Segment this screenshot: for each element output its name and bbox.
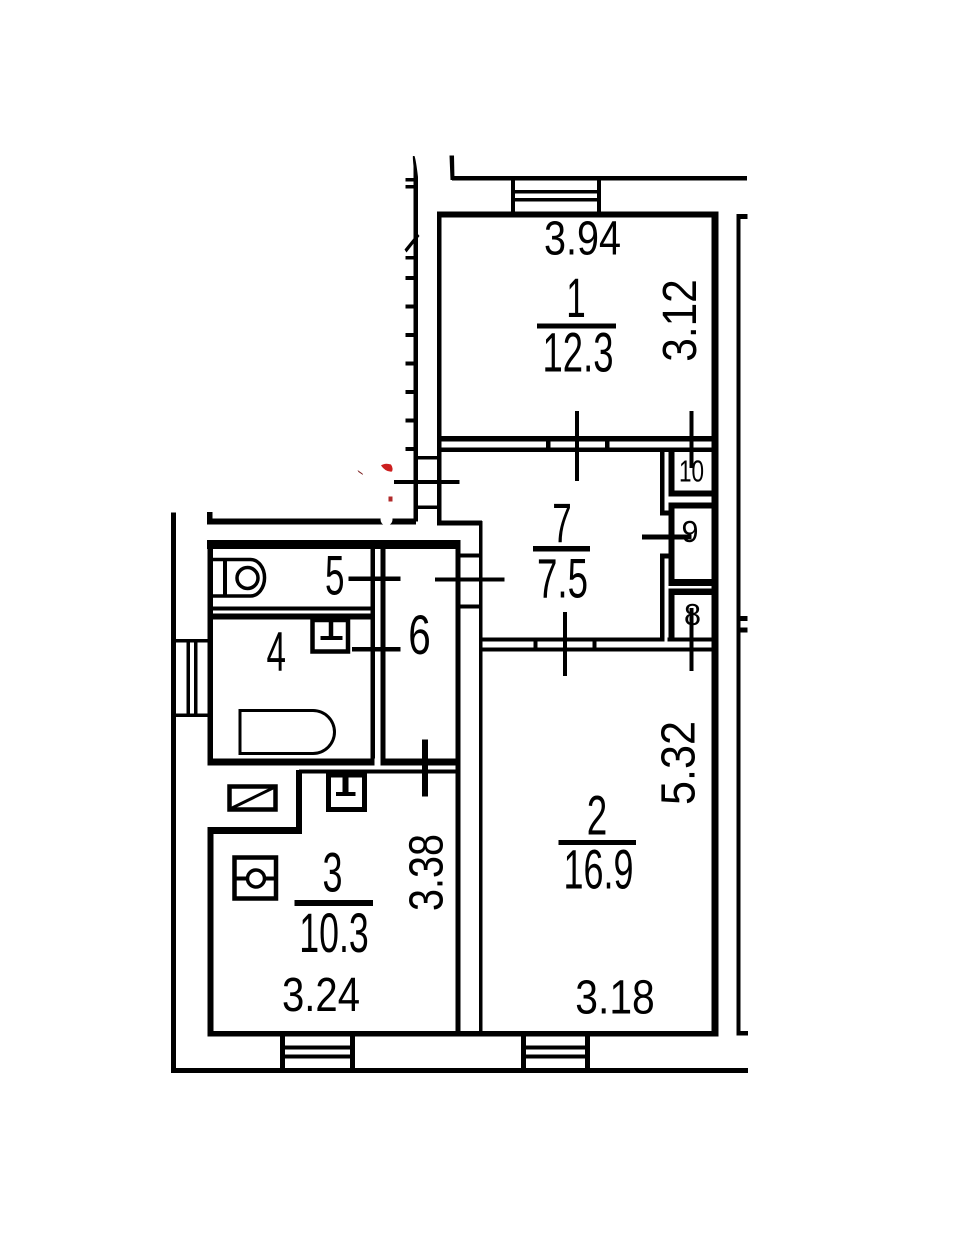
window room2: right jamb — [585, 1032, 590, 1073]
wire kitchen jog vertical — [296, 770, 302, 834]
wire room1 bottom thick wall — [437, 436, 719, 442]
white notch artifact on corridor wall — [381, 514, 393, 526]
niche bottom line — [171, 714, 210, 718]
stair tick 8 — [406, 390, 417, 394]
wire bath block top wall — [207, 540, 461, 549]
svg-text:9: 9 — [682, 514, 699, 549]
right boundary tick b — [737, 628, 748, 633]
wire wall 5/4-6 right line — [381, 549, 386, 759]
door jamb tick 7-2 right — [593, 638, 597, 652]
window room2: left jamb — [521, 1032, 526, 1073]
red artifact crescent — [381, 464, 393, 472]
right boundary top stub — [737, 214, 748, 219]
door tick room4-corridor — [352, 647, 401, 652]
window kitchen: pane line 1 — [280, 1046, 355, 1050]
stair tick 5 — [406, 305, 417, 309]
fraction bar room1 — [537, 324, 616, 329]
svg-text:12.3: 12.3 — [543, 321, 614, 384]
toilet room5 — [211, 558, 265, 598]
wire kitchen/room2 bottom wall — [208, 1031, 719, 1037]
wire top-left corner stub — [450, 156, 455, 181]
wire room7/closet10 top thin line — [442, 448, 719, 453]
door tick room1-room7 — [575, 411, 579, 481]
door tick room7-room2 — [563, 612, 567, 676]
wire room1 top wall — [437, 212, 719, 218]
wire closet8 left wall — [669, 589, 675, 642]
svg-text:7.5: 7.5 — [537, 547, 588, 610]
window kitchen: right jamb — [350, 1032, 355, 1073]
jamb connector closet9 bottom — [660, 554, 674, 559]
niche inner line a — [187, 643, 191, 714]
sink room4 — [313, 620, 349, 652]
window kitchen: left jamb — [280, 1032, 285, 1073]
stair diagonal tread — [405, 234, 420, 253]
wire wall 5/4-6 left line — [371, 549, 376, 759]
wire room2 left wall — [479, 521, 483, 1035]
window room1: pane line 2 — [511, 198, 601, 202]
jamb connector 6-7 top — [460, 554, 480, 558]
wire closet8 bottom upper thin line — [668, 638, 712, 642]
wire room5 bottom thin line — [208, 607, 371, 611]
stair tick 7 — [406, 362, 417, 366]
svg-text:3: 3 — [323, 841, 343, 904]
wire stair wall left line (hooked top) — [413, 156, 418, 522]
wire closet10 left wall — [669, 449, 675, 496]
fraction bar room3 — [295, 900, 374, 906]
window kitchen: pane line 2 — [280, 1055, 355, 1059]
kitchen sink square — [329, 775, 365, 810]
fraction bar room2 — [559, 840, 637, 845]
svg-text:5: 5 — [325, 544, 345, 607]
door tick closet10 — [690, 411, 694, 468]
svg-text:3.12: 3.12 — [654, 279, 707, 362]
wire room7 right wall upper segment — [660, 450, 665, 514]
wire right thick wall — [712, 213, 719, 1036]
wire bottom outer wall — [171, 1068, 748, 1073]
wire room5 bottom thick line — [208, 614, 371, 620]
door tick corridor-room7 — [435, 578, 505, 582]
stair tick 10 — [406, 447, 417, 451]
stair tick 6 — [406, 333, 417, 337]
svg-text:10: 10 — [679, 454, 704, 489]
stair tick 3 — [406, 256, 417, 260]
wire room7 bottom upper thin line — [479, 638, 660, 642]
wire corridor top wall — [207, 519, 416, 525]
wire kitchen left wall — [208, 827, 214, 1036]
svg-text:3.38: 3.38 — [401, 834, 454, 911]
svg-text:3.94: 3.94 — [544, 213, 621, 266]
svg-text:3.18: 3.18 — [575, 972, 655, 1025]
wire lower thin line corridor-kitchen — [299, 770, 460, 774]
right boundary bottom stub — [737, 1031, 749, 1036]
wire right thin boundary line — [737, 214, 741, 1035]
window room2: pane line 1 — [521, 1046, 590, 1050]
right boundary tick a — [737, 616, 748, 621]
stair tick 1 — [406, 178, 417, 182]
wire room7 right wall lower segment — [660, 554, 665, 642]
window room1: pane line 1 — [511, 190, 601, 194]
wire closet10 bottom line — [669, 491, 712, 497]
wire kitchen top-left wall — [208, 827, 303, 834]
fraction bar room7 — [533, 546, 590, 552]
door tick room5-corridor — [349, 577, 401, 582]
stair cross tick upper — [414, 456, 441, 460]
stair cross tick lower — [414, 506, 441, 510]
window room1: left jamb — [511, 177, 515, 214]
wire stair wall right line / room1 left wall — [437, 212, 442, 522]
svg-text:5.32: 5.32 — [653, 721, 706, 805]
bathtub room4 — [239, 709, 337, 755]
stove kitchen — [230, 787, 276, 810]
wire room4 bottom thick wall — [208, 759, 375, 766]
wire closet9 left wall — [669, 503, 675, 586]
svg-text:7: 7 — [552, 491, 572, 554]
door tick entrance — [394, 480, 460, 484]
jamb connector closet9 top — [660, 511, 674, 516]
wire corridor bottom thick wall — [381, 759, 456, 766]
door tick closet8 — [690, 608, 694, 671]
door tick closet9 — [642, 535, 692, 540]
wire closet9 bottom line — [669, 579, 712, 586]
svg-text:16.9: 16.9 — [564, 838, 634, 901]
wire closet8 top line — [669, 589, 712, 596]
wire room7/room2 lower thin line — [479, 648, 712, 652]
niche top line — [171, 639, 210, 643]
svg-text:3.24: 3.24 — [282, 969, 360, 1022]
wire room7 left jog wall — [437, 521, 482, 526]
red artifact dash — [358, 470, 364, 475]
fridge kitchen — [233, 858, 279, 899]
wire closet9 top line — [669, 503, 712, 509]
wire bathroom left wall — [208, 543, 214, 766]
svg-text:4: 4 — [267, 620, 287, 683]
stair tick 2 — [406, 185, 417, 189]
stair tick 4 — [406, 276, 417, 280]
stair tick 9 — [406, 419, 417, 423]
wire top outer wall — [452, 176, 747, 181]
svg-text:8: 8 — [684, 597, 701, 632]
door jamb tick 1-7 left — [546, 442, 551, 453]
window room2: pane line 2 — [521, 1055, 590, 1059]
window room1: right jamb — [597, 177, 601, 214]
jamb connector 6-7 bottom — [460, 605, 480, 609]
door jamb tick 1-7 right — [605, 442, 610, 453]
svg-text:10.3: 10.3 — [299, 901, 369, 964]
wire outer left wall — [171, 513, 176, 1073]
niche inner line b — [194, 643, 198, 714]
door tick corridor-kitchen — [422, 740, 428, 797]
wire corridor top wall left stub — [207, 512, 213, 525]
door jamb tick 7-2 left — [534, 638, 538, 652]
wire kitchen/corridor right wall — [456, 544, 461, 1036]
svg-text:6: 6 — [408, 603, 431, 666]
red artifact dot — [389, 497, 393, 502]
